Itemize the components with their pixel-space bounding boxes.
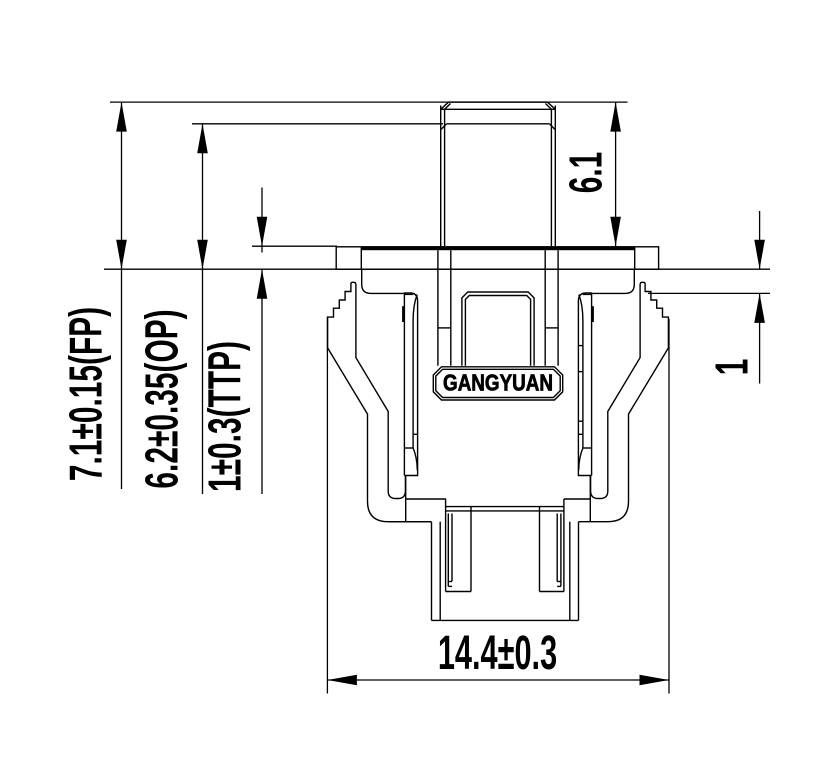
extension line top (free position): [110, 101, 628, 103]
body right inner wall: [591, 284, 641, 499]
button plunger: [441, 102, 556, 247]
plunger legs: [438, 250, 558, 366]
dimension 14.4±0.3 (bottom width): [327, 317, 669, 693]
bottom housing edge left: [388, 521, 432, 523]
GANGYUAN nameplate: [433, 367, 562, 400]
terminal contact left: [402, 293, 418, 476]
dimension 6.2±0.35(OP): [137, 124, 208, 494]
extension line TTP top: [252, 245, 337, 247]
body right outer profile (barb steps): [579, 282, 669, 521]
svg-text:14.4±0.3: 14.4±0.3: [438, 626, 557, 680]
bottom terminal block: [432, 499, 579, 620]
svg-text:1±0.3(TTP): 1±0.3(TTP): [200, 341, 251, 492]
dimension 6.1 (button height): [561, 102, 621, 246]
inner bottom line right: [564, 498, 591, 500]
dimension 7.1±0.15(FP): [61, 102, 127, 489]
svg-text:6.2±0.35(OP): 6.2±0.35(OP): [137, 309, 188, 488]
svg-text:7.1±0.15(FP): 7.1±0.15(FP): [61, 307, 112, 481]
flange: [336, 246, 658, 269]
extension line operating position: [192, 123, 443, 125]
slot wall left vertical: [405, 476, 407, 522]
terminal contact right: [578, 293, 594, 476]
extension line right step: [648, 292, 770, 294]
dimension 1 (right, flange thickness): [707, 211, 765, 384]
center bridge: [462, 292, 534, 366]
body collar left: [362, 270, 405, 294]
slot wall right vertical: [589, 476, 591, 522]
inner bottom line left: [405, 498, 446, 500]
svg-text:6.1: 6.1: [561, 152, 612, 194]
svg-text:GANGYUAN: GANGYUAN: [443, 371, 553, 396]
dimension 1±0.3(TTP): [200, 188, 267, 495]
body left inner wall: [356, 284, 406, 499]
body left outer profile (barb steps): [328, 282, 432, 521]
svg-text:1: 1: [707, 359, 758, 376]
extension line flange bottom: [104, 268, 770, 270]
body collar right: [592, 270, 635, 294]
